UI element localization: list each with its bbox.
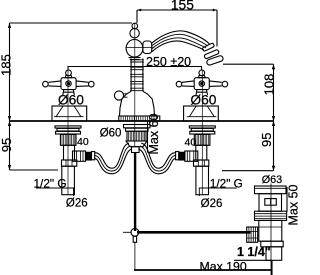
svg-text:40: 40: [185, 136, 197, 148]
svg-text:40: 40: [77, 136, 89, 148]
svg-text:95: 95: [0, 138, 14, 152]
svg-text:Max 190: Max 190: [200, 259, 247, 273]
svg-text:Ø63: Ø63: [262, 174, 282, 186]
svg-text:1/2" G: 1/2" G: [34, 176, 67, 190]
svg-text:Max 50: Max 50: [287, 184, 301, 225]
svg-text:Ø60: Ø60: [58, 92, 84, 107]
svg-text:108: 108: [261, 74, 276, 96]
svg-text:Max 60: Max 60: [147, 113, 161, 154]
svg-text:Ø60: Ø60: [100, 128, 122, 140]
svg-text:250 ±20: 250 ±20: [146, 55, 191, 69]
svg-text:1 1/4": 1 1/4": [237, 245, 271, 259]
svg-text:185: 185: [0, 54, 14, 76]
svg-text:Ø26: Ø26: [66, 197, 88, 209]
svg-text:Ø26: Ø26: [201, 198, 223, 210]
svg-text:155: 155: [171, 0, 194, 12]
svg-text:1/2" G: 1/2" G: [210, 176, 243, 190]
svg-text:Ø60: Ø60: [190, 92, 216, 107]
svg-text:95: 95: [259, 133, 274, 147]
